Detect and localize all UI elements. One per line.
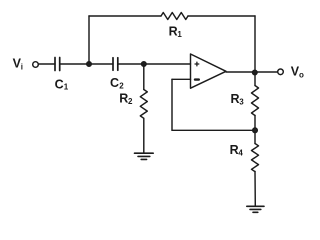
- capacitor C2: [113, 58, 118, 71]
- node C junction: [253, 128, 258, 133]
- wire: [143, 119, 145, 153]
- node B junction: [142, 62, 147, 67]
- wire op-amp output: [226, 71, 278, 73]
- resistor R4: [252, 144, 259, 172]
- label R3: [231, 92, 245, 107]
- wire: [254, 16, 256, 73]
- label R2: [119, 91, 133, 106]
- label C1: [55, 77, 69, 91]
- ground (R4): [247, 206, 264, 212]
- op-amp plus mark: [195, 62, 199, 66]
- svg-text:1: 1: [64, 83, 69, 92]
- wire: [118, 63, 191, 65]
- resistor R2: [140, 90, 147, 119]
- capacitor C1: [55, 58, 60, 71]
- wire inverting input: [172, 78, 191, 80]
- svg-text:C: C: [55, 77, 64, 91]
- resistor R1: [161, 13, 188, 20]
- svg-text:1: 1: [177, 30, 182, 39]
- svg-text:2: 2: [119, 81, 124, 90]
- node output junction: [253, 70, 258, 75]
- resistor R3: [252, 86, 259, 116]
- label R1: [169, 24, 183, 39]
- node Vi terminal: [33, 62, 39, 68]
- node Vo terminal: [278, 69, 284, 75]
- wire: [171, 79, 173, 130]
- wire: [254, 116, 256, 144]
- svg-text:2: 2: [128, 97, 133, 106]
- wire: [254, 73, 256, 86]
- label C2: [110, 76, 124, 91]
- svg-text:3: 3: [239, 98, 244, 107]
- op-amp U1: [191, 54, 227, 88]
- wire: [89, 15, 161, 17]
- node A junction: [87, 62, 92, 67]
- ground (R2): [135, 153, 154, 159]
- svg-text:i: i: [21, 63, 23, 72]
- wire: [88, 16, 90, 64]
- wire: [38, 63, 55, 65]
- wire: [188, 15, 255, 17]
- label Vi: [13, 57, 23, 72]
- svg-text:C: C: [110, 76, 119, 90]
- wire: [60, 63, 113, 65]
- label Vo: [291, 65, 304, 80]
- svg-text:R: R: [230, 143, 239, 157]
- label R4: [230, 143, 244, 158]
- op-amp minus mark: [195, 78, 199, 80]
- svg-text:o: o: [299, 70, 304, 79]
- svg-text:R: R: [231, 92, 240, 106]
- svg-text:R: R: [119, 91, 128, 105]
- wire: [254, 172, 256, 206]
- svg-text:R: R: [169, 24, 178, 38]
- wire: [172, 129, 255, 131]
- wire: [143, 64, 145, 90]
- svg-text:4: 4: [238, 148, 243, 157]
